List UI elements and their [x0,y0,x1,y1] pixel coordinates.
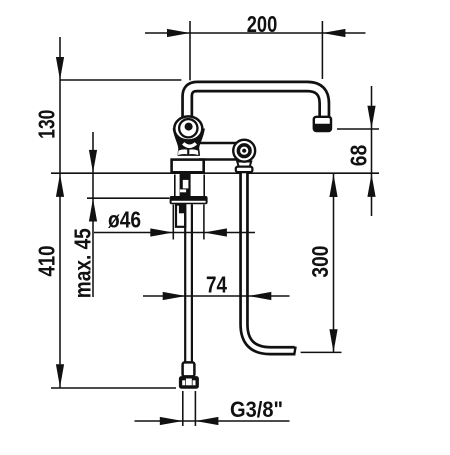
arrow 130 top [56,57,64,80]
clamp bracket [176,205,185,227]
swivel collar [236,167,253,173]
svg-text:68: 68 [346,145,372,167]
extension line pipe end [301,351,342,353]
G3/8 nut [179,376,199,389]
dimension 74 line [143,295,290,297]
chin white crescent [183,143,196,146]
arrow G38 left [160,417,183,425]
extension line right of 200 [321,21,323,79]
swivel neck [237,162,251,167]
arrow G38 right [195,417,218,425]
valve head dot [185,123,193,131]
pipe end cap [294,347,296,356]
svg-text:410: 410 [34,246,60,277]
dimension max45 line [92,132,94,297]
rod collar [183,362,195,376]
arrow 68 top [367,106,375,129]
body block [172,160,204,173]
extension line nozzle bottom [337,128,379,130]
dimension 130/410 vertical line [59,37,61,388]
extension line nut right [194,391,196,426]
chin tooth left [178,149,187,155]
extension line block left [172,205,174,240]
nozzle aerator [314,117,331,131]
arrow at counter shared [56,174,64,197]
svg-text:G3/8": G3/8" [230,397,283,422]
arrow max45 bottom [89,199,97,222]
dimension 68 line [371,86,373,216]
shank silhouette lines [174,175,176,197]
threaded rod [184,204,186,362]
extension line left of 200 [189,21,191,80]
arrow max45 top [89,150,97,173]
arrow 74 left [163,292,186,300]
node counter-surface line [51,172,379,174]
valve head ball [174,116,202,140]
valve head chin [173,129,205,156]
svg-text:200: 200 [247,11,278,37]
extension line nut left [182,391,184,426]
wire arm to swivel joint [199,144,246,158]
chin tooth right [189,149,198,155]
dimension 200 line [145,32,366,34]
arrow dia46 left [150,228,173,236]
dimension 300 line [333,174,335,352]
spout tube [187,87,324,119]
extension line flange top [87,197,169,199]
arrow 74 right [248,292,271,300]
swivel joint outer circle [233,140,255,162]
svg-text:300: 300 [307,246,333,278]
svg-text:max. 45: max. 45 [69,228,95,298]
flange [170,196,208,204]
extension line block right [203,205,205,240]
arrow dia46 right [204,228,227,236]
down pipe (outlet hose) [244,167,295,351]
dimension G38 line [135,420,290,422]
svg-text:74: 74 [206,272,227,298]
extension line under connector [51,387,176,389]
svg-text:ø46: ø46 [108,207,141,233]
swivel joint ring [238,145,250,157]
arrow 200 left [167,29,190,37]
extension line spout top [60,79,181,81]
arrow 200 right [322,29,345,37]
arrow 410 bottom [56,364,64,387]
threaded stud under block [180,174,191,197]
dimension dia46 line [94,232,255,234]
arrow 300 top [329,174,337,197]
valve head middle circle [179,119,197,137]
svg-text:130: 130 [34,110,60,139]
swivel joint pin [242,149,246,153]
arrow 300 bottom [329,329,337,352]
arrow 68 bottom [367,174,375,197]
